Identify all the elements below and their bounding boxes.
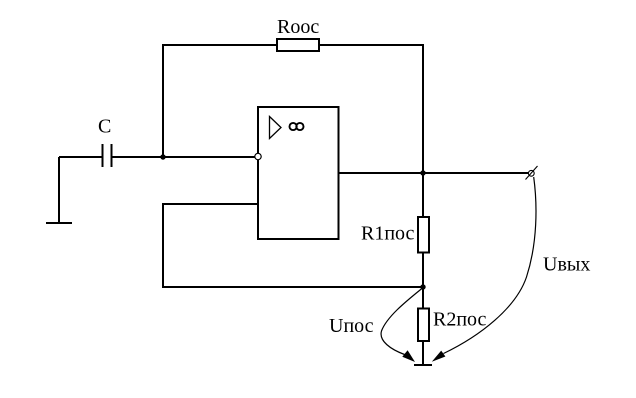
- node output junction dot: [420, 170, 425, 175]
- wire non-inverting input: [163, 203, 258, 205]
- wire top horizontal left segment (corner to Rooc): [162, 44, 277, 46]
- resistor R2pos: [418, 309, 487, 342]
- svg-text:Rooc: Rooc: [277, 16, 319, 38]
- resistor R1pos: [361, 217, 429, 253]
- wire feedback left vertical: [162, 203, 164, 288]
- wire R1 bottom to junction: [422, 253, 424, 309]
- svg-text:Uпос: Uпос: [329, 315, 374, 337]
- node divider junction dot: [420, 284, 425, 289]
- wire feedback bottom horizontal to divider junction: [163, 286, 423, 288]
- op-amp U1 body: [258, 107, 339, 239]
- wire op-amp output: [339, 172, 529, 174]
- curve Uvyh (output voltage arrow): [432, 177, 591, 362]
- svg-text:R2пос: R2пос: [433, 309, 487, 331]
- ground (bottom): [414, 364, 432, 366]
- terminal (output tap with slash): [526, 166, 538, 180]
- wire right vertical: top corner down to R1: [422, 45, 424, 217]
- node A: junction dot at capacitor/feedback: [160, 154, 165, 159]
- wire top horizontal right segment (Rooc to right corner): [319, 44, 424, 46]
- svg-text:C: C: [98, 116, 111, 138]
- wire from left ground riser to capacitor left plate: [59, 156, 103, 158]
- svg-text:Uвых: Uвых: [543, 254, 590, 276]
- svg-text:R1пос: R1пос: [361, 223, 415, 245]
- wire R2 bottom to ground: [422, 341, 424, 365]
- op-amp U1 infinity gain mark: [290, 123, 304, 130]
- curve Upos (feedback voltage arrow): [329, 288, 423, 362]
- ground (left): [46, 222, 72, 224]
- wire from capacitor right plate to op-amp inverting input: [112, 156, 256, 158]
- op-amp U1 gain triangle: [270, 117, 282, 139]
- capacitor C: [98, 116, 112, 168]
- resistor Rooc: [277, 16, 319, 51]
- wire top feedback loop: left vertical from corner down to input node: [162, 45, 164, 157]
- wire left riser down to ground: [58, 157, 60, 223]
- op-amp U1 inverting input circle: [255, 153, 261, 159]
